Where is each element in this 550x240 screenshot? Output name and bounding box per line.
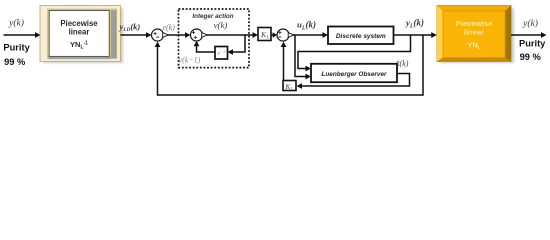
wire observer to K2 <box>301 74 410 87</box>
svg-text:x̂(k): x̂(k) <box>395 59 409 68</box>
block z-1 <box>215 47 228 60</box>
svg-text:Discrete system: Discrete system <box>336 33 386 40</box>
summing junction S3 <box>191 29 203 41</box>
svg-text:y(k): y(k) <box>522 18 538 29</box>
summing junction S2 <box>277 29 289 41</box>
wire output y(k) <box>511 34 543 36</box>
block K1 <box>258 28 271 41</box>
wire input y(k) <box>4 34 37 36</box>
wire bottom feedback yL to S1 <box>158 35 424 95</box>
sum S1 output notch <box>163 33 169 38</box>
block Discrete system <box>328 27 394 45</box>
wire B1 to sum S1 <box>121 34 148 36</box>
wire K1 to S2 <box>271 34 274 36</box>
svg-text:99 %: 99 % <box>520 52 542 62</box>
wire S2 to Discrete system <box>289 34 325 36</box>
wire S1 to S3 <box>164 34 188 36</box>
wire z-1 to S3 bottom <box>197 45 216 53</box>
block K2 <box>283 81 296 91</box>
svg-text:v(k−1): v(k−1) <box>179 56 201 65</box>
wire K2 to S2 bottom <box>283 46 285 81</box>
wire yL return to observer input 1 <box>298 35 411 69</box>
svg-text:v(k): v(k) <box>214 20 228 30</box>
block B1 face <box>49 11 109 57</box>
svg-text:linear: linear <box>464 28 485 37</box>
svg-text:e(k): e(k) <box>163 23 176 32</box>
dashed box Integer action <box>179 9 250 68</box>
shadow of right block <box>440 8 514 63</box>
svg-text:Purity: Purity <box>3 43 30 53</box>
svg-text:yL(k): yL(k) <box>405 18 424 30</box>
wire S3 to K1 with junction to z-1 <box>203 34 255 36</box>
svg-text:y(k): y(k) <box>8 18 24 29</box>
wire junction uL down to observer input 2 <box>295 35 307 77</box>
block B1 inner lip <box>48 9 116 58</box>
block B1 groove shadow right <box>111 10 117 58</box>
wire Discrete system to B2 <box>394 34 434 36</box>
block B2 face <box>443 11 505 58</box>
sum S3 output notch <box>202 33 208 38</box>
block B1 groove shadow bottom <box>48 57 110 60</box>
svg-text:Purity: Purity <box>519 39 546 49</box>
wire feedback down to z-1 <box>231 35 245 52</box>
block Luenberger Observer <box>311 64 397 82</box>
summing junction S1 <box>152 29 164 41</box>
svg-text:uL(k): uL(k) <box>297 20 316 32</box>
svg-text:Luenberger Observer: Luenberger Observer <box>322 71 388 78</box>
block B2 bevels <box>437 6 443 62</box>
block B2 frame (Piecewise linear YNL) <box>437 6 511 62</box>
svg-text:Integer action: Integer action <box>192 13 233 20</box>
shadow of left block <box>43 8 123 63</box>
block B1 tan lip right of face <box>109 10 111 56</box>
svg-text:linear: linear <box>69 28 90 37</box>
svg-text:99 %: 99 % <box>4 57 26 67</box>
svg-text:yLD(k): yLD(k) <box>119 22 141 34</box>
block B1 frame (Piecewise linear YNL^-1) <box>40 6 121 62</box>
sum S2 output notch <box>288 33 294 38</box>
